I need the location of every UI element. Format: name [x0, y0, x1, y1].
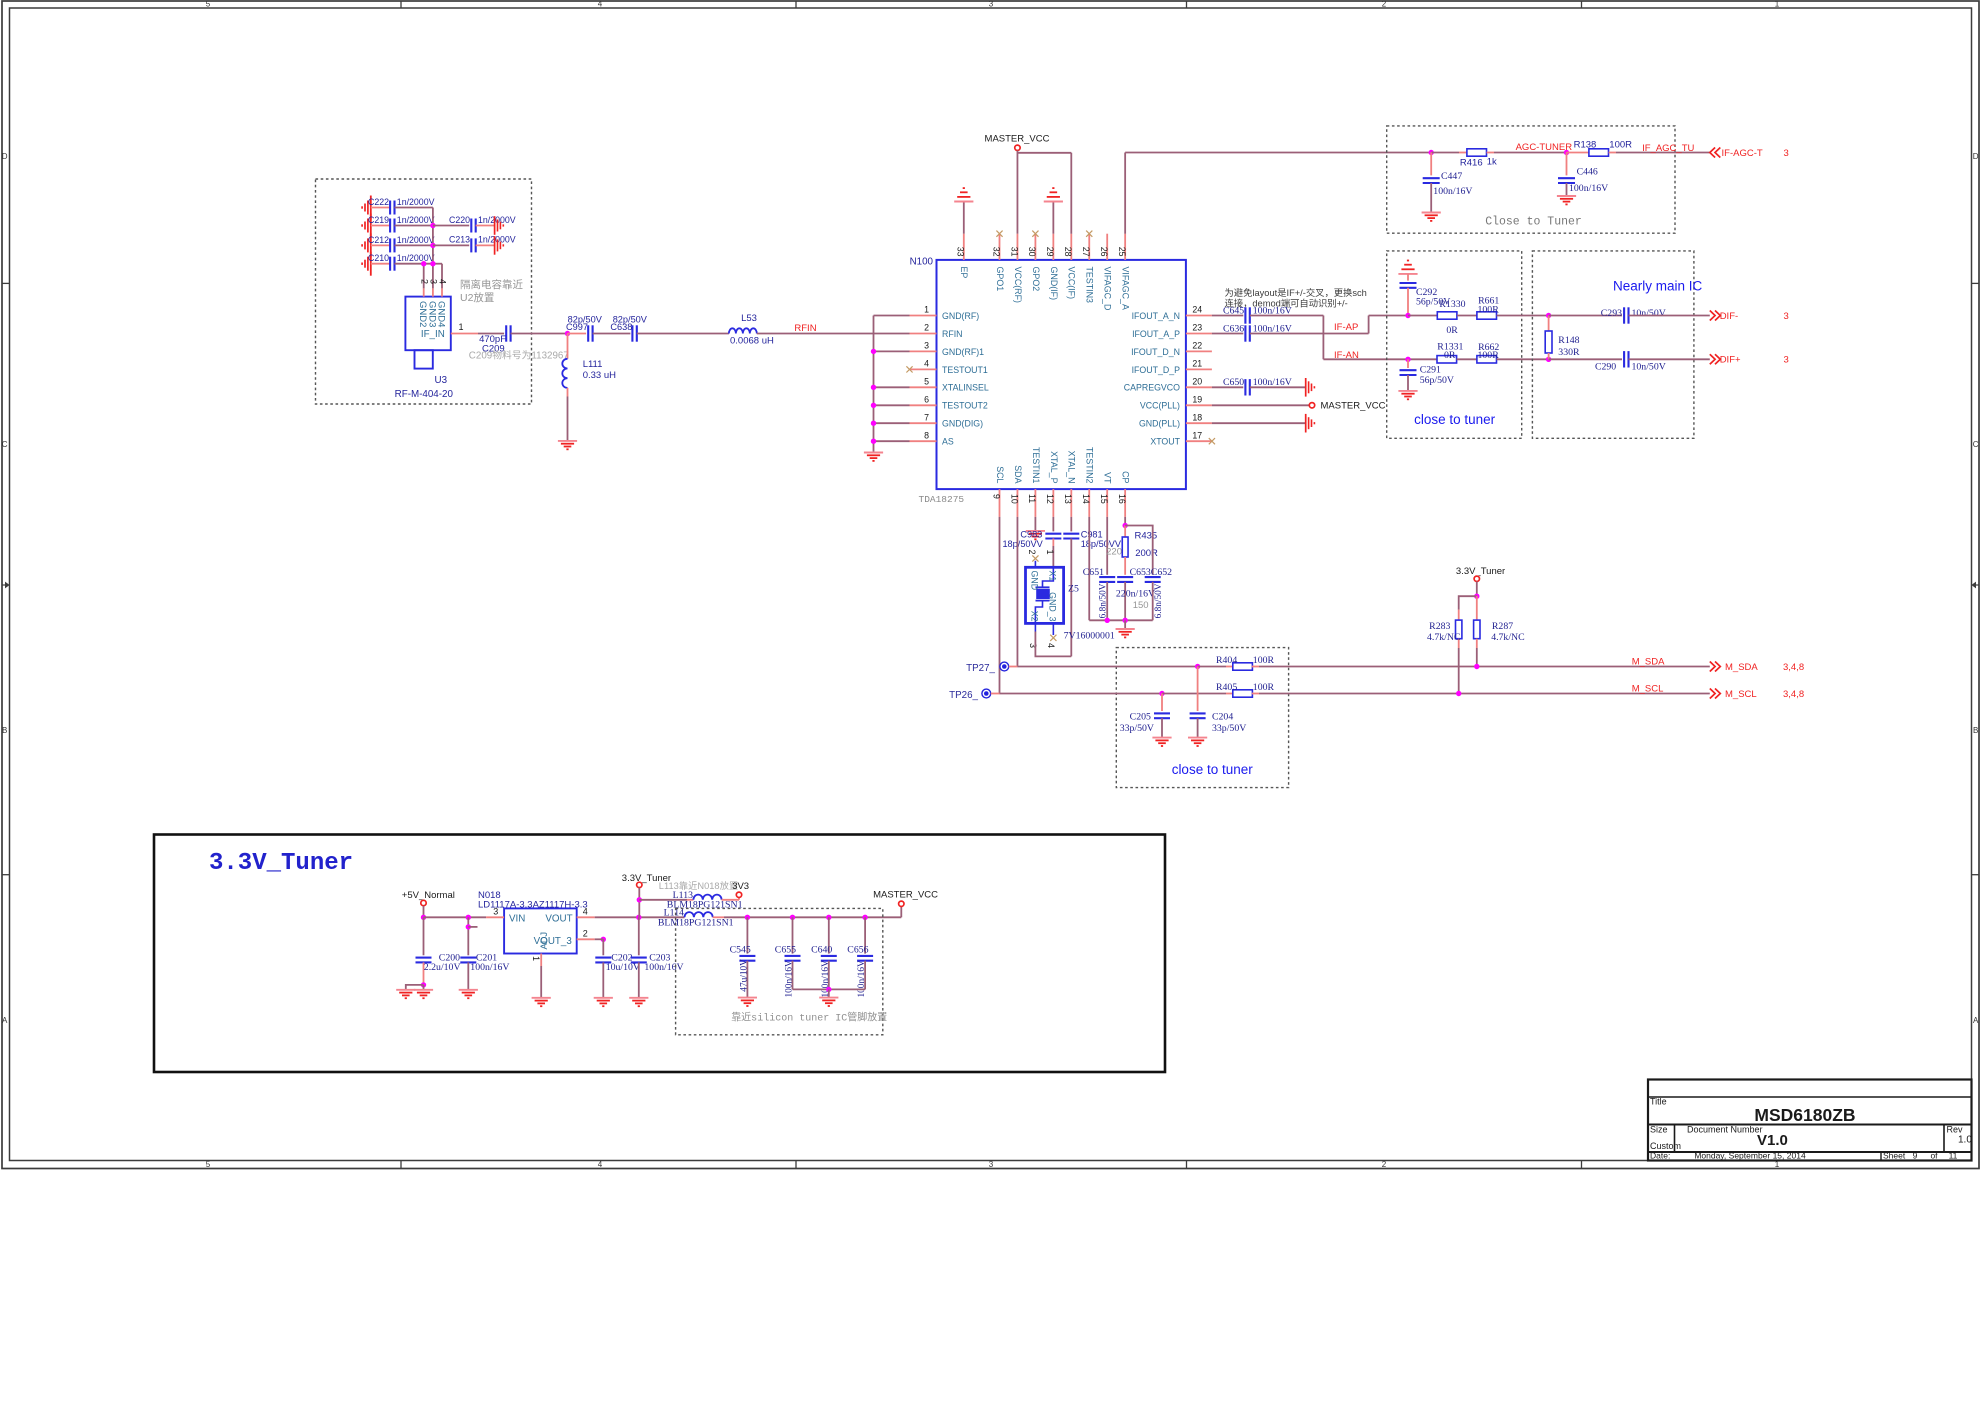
svg-text:GPO2: GPO2 [1031, 267, 1041, 292]
pin 31 VCC(RF) [1016, 234, 1018, 260]
dashed box Close to Tuner [1387, 126, 1675, 233]
wire caps ground rail [793, 988, 866, 990]
capacitor C201 100n/16V [460, 957, 476, 959]
ground TESTIN1 [1034, 517, 1036, 531]
pin 4 TESTOUT1 [910, 368, 937, 370]
svg-text:D: D [2, 152, 8, 161]
junction L113 node [637, 897, 642, 902]
wire R287 to M_SDA [1476, 648, 1478, 667]
ground ADJ [532, 997, 551, 999]
svg-text:C293: C293 [1601, 308, 1622, 319]
capacitor C203 100n/16V [638, 917, 640, 955]
capacitor C446 100n/16V [1566, 153, 1568, 176]
svg-text:C447: C447 [1441, 171, 1462, 182]
svg-text:Nearly main IC: Nearly main IC [1613, 278, 1703, 293]
svg-text:C: C [2, 440, 8, 449]
wire SDA down [1016, 517, 1018, 667]
pin 25 VIFAGC_A [1124, 234, 1126, 260]
svg-text:GND4: GND4 [436, 301, 447, 327]
wire bus of isolation caps [432, 208, 434, 264]
capacitor C222 [371, 207, 390, 209]
svg-text:100n/16V: 100n/16V [857, 960, 867, 997]
svg-text:5: 5 [206, 1160, 211, 1169]
svg-text:220n/16V: 220n/16V [1116, 588, 1155, 599]
svg-text:11: 11 [1027, 494, 1037, 503]
svg-text:C651: C651 [1083, 567, 1104, 578]
pin 8 AS [910, 440, 937, 442]
wire R283 to M_SCL [1458, 648, 1460, 694]
svg-text:24: 24 [1192, 305, 1202, 315]
wire R1330 R661 [1457, 315, 1477, 317]
ground EP pin33 [963, 202, 965, 234]
pin 14 TESTIN2 [1088, 489, 1090, 517]
ground left bus [864, 452, 883, 454]
svg-text:C640: C640 [811, 944, 832, 955]
svg-text:1: 1 [459, 322, 464, 332]
wire IFOUT_A_N jog down IF-AN [1250, 315, 1324, 317]
svg-text:SCL: SCL [995, 466, 1005, 483]
svg-text:IF_IN: IF_IN [421, 329, 445, 340]
pin 23 IFOUT_A_P [1186, 333, 1212, 335]
svg-text:18: 18 [1192, 412, 1202, 422]
svg-text:C638: C638 [610, 322, 632, 332]
svg-text:B: B [2, 726, 7, 735]
pin 16 CP [1124, 489, 1126, 517]
pin 7 GND(DIG) [910, 422, 937, 424]
svg-text:VT: VT [1103, 472, 1113, 484]
capacitor C653 220n/16V [1117, 576, 1133, 578]
ground C200 right [414, 989, 433, 991]
pin 32 GPO1 [999, 234, 1001, 260]
wire RFIN to IC pin2 [757, 333, 910, 335]
inductor L53 0.0068 uH [729, 328, 757, 333]
svg-text:U2放置: U2放置 [460, 291, 494, 304]
junction bus pin7 [871, 421, 876, 426]
svg-text:C650: C650 [1223, 377, 1244, 388]
svg-text:3: 3 [989, 1160, 994, 1169]
inductor L111 0.33 uH [567, 334, 569, 359]
svg-text:C209物料号为1132967: C209物料号为1132967 [469, 349, 569, 362]
svg-text:IF-AP: IF-AP [1334, 322, 1358, 333]
pin 15 VT [1106, 489, 1108, 517]
offpage M_SCL [1710, 689, 1715, 699]
svg-text:靠近silicon tuner IC管脚放置: 靠近silicon tuner IC管脚放置 [731, 1011, 887, 1025]
wire L111 to ground [567, 397, 569, 441]
junction bus pin5 [871, 385, 876, 390]
svg-text:R405: R405 [1216, 682, 1237, 693]
svg-text:C545: C545 [730, 944, 751, 955]
svg-text:Rev: Rev [1947, 1125, 1964, 1135]
svg-text:X1: X1 [1047, 571, 1057, 582]
svg-text:2: 2 [1382, 1160, 1387, 1169]
svg-text:C655: C655 [775, 944, 796, 955]
svg-text:R287: R287 [1492, 621, 1513, 632]
svg-text:1k: 1k [1487, 156, 1497, 167]
svg-text:14: 14 [1081, 494, 1091, 504]
svg-text:of: of [1930, 1151, 1938, 1161]
offpage IF-AGC-T [1710, 148, 1715, 158]
svg-text:M_SCL: M_SCL [1632, 683, 1664, 694]
svg-text:4: 4 [924, 359, 929, 369]
regulator N018 LD1117A-3.3AZ1117H-3.3 [504, 908, 577, 953]
dashed box near silicon tuner [676, 908, 883, 1034]
svg-text:5: 5 [206, 0, 211, 9]
wire R416 to R138 node [1494, 152, 1567, 154]
svg-text:VIFAGC_D: VIFAGC_D [1103, 267, 1113, 311]
svg-text:Sheet: Sheet [1883, 1151, 1906, 1161]
svg-text:29: 29 [1045, 247, 1055, 257]
svg-text:10n/50V: 10n/50V [1632, 361, 1666, 372]
resistor R416 1k [1431, 152, 1459, 154]
svg-text:MASTER_VCC: MASTER_VCC [985, 134, 1050, 145]
svg-text:C636: C636 [1223, 323, 1244, 334]
svg-text:RFIN: RFIN [942, 329, 963, 339]
svg-text:GPO1: GPO1 [995, 267, 1005, 292]
capacitor C202 10u/10V [602, 939, 604, 955]
ground C203 [629, 997, 648, 999]
svg-text:31: 31 [1009, 247, 1019, 257]
svg-text:3,4,8: 3,4,8 [1783, 662, 1804, 673]
pin 3 GND(RF)1 [910, 350, 937, 352]
capacitor C291 56p/50V [1407, 359, 1409, 368]
svg-text:100n/16V: 100n/16V [785, 960, 795, 997]
svg-text:M_SDA: M_SDA [1632, 656, 1665, 667]
pin 2 RFIN [910, 333, 937, 335]
wire C201 drop [467, 917, 469, 955]
svg-text:R283: R283 [1429, 621, 1450, 632]
svg-text:IF-AGC-T: IF-AGC-T [1722, 148, 1763, 159]
dashed box Nearly main IC [1532, 251, 1694, 438]
junction pullup top [1474, 594, 1479, 599]
no-connect pin4 [906, 366, 912, 372]
svg-text:3: 3 [1784, 311, 1789, 322]
svg-text:隔离电容靠近: 隔离电容靠近 [460, 278, 523, 291]
capacitor C655 100n/16V [792, 917, 794, 953]
ground C447 [1422, 212, 1441, 214]
svg-text:MSD6180ZB: MSD6180ZB [1754, 1105, 1855, 1125]
junction U3 pin2 column [421, 261, 426, 266]
pin 2 Z5 no-connect [1034, 561, 1036, 568]
svg-text:30: 30 [1027, 247, 1037, 257]
dashed box close to tuner right [1387, 251, 1522, 438]
svg-text:Z5: Z5 [1068, 584, 1079, 595]
ground C220 right [494, 216, 496, 235]
pin 17 XTOUT [1186, 440, 1212, 442]
junction C205 [1159, 691, 1164, 696]
svg-text:TESTIN2: TESTIN2 [1085, 447, 1095, 484]
ground VT CP rail [1124, 620, 1126, 629]
junction bus pin6 [871, 403, 876, 408]
svg-text:330R: 330R [1558, 347, 1580, 358]
ground C291 [1398, 390, 1417, 392]
capacitor C983 18p/50VV [1052, 517, 1054, 532]
junction C447 node [1429, 150, 1434, 155]
pin 20 CAPREGVCO [1186, 386, 1212, 388]
svg-text:RFIN: RFIN [794, 323, 816, 334]
svg-text:2: 2 [583, 928, 588, 938]
testpoint TP26 [982, 689, 991, 698]
junction CP R435 top [1124, 517, 1126, 526]
capacitor C638 82p/50V [631, 325, 633, 341]
svg-text:0R: 0R [1446, 325, 1458, 336]
wire left pins bus [873, 316, 875, 453]
capacitor C213 [433, 244, 469, 246]
svg-text:4: 4 [583, 906, 588, 916]
pin 24 IFOUT_A_N [1186, 315, 1212, 317]
svg-text:0R: 0R [1444, 350, 1456, 361]
svg-text:VIN: VIN [509, 914, 525, 925]
resistor R405 100R [1162, 693, 1226, 695]
svg-text:IF_AGC_TU: IF_AGC_TU [1642, 143, 1694, 154]
svg-text:6.8n/50V: 6.8n/50V [1099, 583, 1109, 618]
pin 10 SDA [1016, 489, 1018, 517]
svg-text:33: 33 [956, 247, 966, 257]
junction C212 bus [430, 243, 435, 248]
ground C222 left [370, 196, 372, 220]
svg-text:22: 22 [1192, 341, 1202, 351]
junction R283 M_SCL [1456, 691, 1461, 696]
svg-text:C212: C212 [368, 235, 389, 245]
pin 11 TESTIN1 [1034, 489, 1036, 517]
svg-text:9: 9 [991, 494, 1001, 499]
capacitor C640 100n/16V [828, 917, 830, 953]
svg-text:2: 2 [1382, 0, 1387, 9]
svg-text:4.7k/NC: 4.7k/NC [1427, 632, 1460, 643]
svg-text:XTAL_P: XTAL_P [1049, 451, 1059, 483]
svg-text:GND_3: GND_3 [1047, 592, 1057, 621]
resistor R283 4.7k/NC [1459, 596, 1477, 609]
svg-text:IF-AN: IF-AN [1334, 350, 1359, 361]
svg-text:C997: C997 [566, 322, 588, 332]
svg-text:11: 11 [1949, 1151, 1958, 1161]
svg-text:A: A [2, 1016, 8, 1025]
svg-text:C983: C983 [1020, 530, 1042, 540]
resistor R435 200R [1124, 526, 1126, 538]
svg-text:4.7k/NC: 4.7k/NC [1491, 632, 1524, 643]
svg-text:100n/16V: 100n/16V [470, 962, 509, 973]
junction R287 M_SDA [1474, 664, 1479, 669]
junction R148 top [1546, 313, 1551, 318]
svg-text:R138: R138 [1574, 140, 1597, 151]
junction C640 [826, 915, 831, 920]
svg-text:DIF+: DIF+ [1720, 355, 1741, 366]
connector U3 RF-M-404-20 [405, 297, 450, 351]
svg-text:200R: 200R [1135, 548, 1158, 559]
svg-text:10n/50V: 10n/50V [1632, 308, 1666, 319]
svg-text:5: 5 [924, 377, 929, 387]
svg-text:IFOUT_A_P: IFOUT_A_P [1132, 329, 1180, 339]
svg-text:3,4,8: 3,4,8 [1783, 689, 1804, 700]
ground C446 [1557, 195, 1576, 197]
svg-text:M_SDA: M_SDA [1725, 662, 1758, 673]
svg-text:CP: CP [1121, 471, 1131, 483]
svg-text:0.33 uH: 0.33 uH [583, 370, 616, 381]
junction ground rail C640 [826, 987, 831, 992]
svg-text:R148: R148 [1558, 335, 1579, 346]
svg-text:100n/16V: 100n/16V [1433, 186, 1472, 197]
junction rail C653 [1122, 618, 1127, 623]
capacitor C981 18p/50VV [1070, 517, 1072, 532]
svg-text:2: 2 [924, 323, 929, 333]
ground C200 left [396, 989, 415, 991]
svg-text:1: 1 [1045, 549, 1055, 554]
svg-text:23: 23 [1192, 323, 1202, 333]
svg-text:C290: C290 [1595, 361, 1616, 372]
svg-text:100R: 100R [1253, 682, 1275, 693]
junction C655 [790, 915, 795, 920]
wire XTAL_P to crystal [1052, 546, 1054, 567]
svg-text:N100: N100 [910, 257, 934, 268]
resistor R661 100R [1477, 312, 1497, 319]
wire U3 to C209 [478, 333, 504, 335]
svg-text:1: 1 [924, 305, 929, 315]
ground GND(IF) pin29 [1052, 202, 1054, 234]
wire VT CP ground rail [1089, 619, 1152, 621]
wire IFOUT_A_P jog up IF-AP [1250, 333, 1369, 335]
wire M_SDA row left [1017, 666, 1197, 668]
svg-text:7: 7 [924, 412, 929, 422]
svg-text:U3: U3 [435, 375, 448, 386]
svg-text:2.2u/10V: 2.2u/10V [424, 962, 461, 973]
wire M_SDA row right [1259, 666, 1710, 668]
svg-text:32: 32 [991, 247, 1001, 257]
offpage DIF- [1710, 311, 1715, 321]
svg-text:为避免layout是IF+/-交叉，更换sch: 为避免layout是IF+/-交叉，更换sch [1225, 287, 1367, 298]
wire IF-AN into box [1408, 358, 1437, 360]
pin 1 N018 ADJ ground [540, 954, 542, 967]
capacitor C292 56p/50V [1407, 274, 1409, 281]
no-connect pin30 [1032, 231, 1038, 237]
ground C219 left [370, 214, 372, 238]
wire GND(PLL) to ground [1212, 422, 1306, 424]
svg-text:4: 4 [598, 0, 603, 9]
svg-text:100n/16V: 100n/16V [644, 962, 683, 973]
capacitor C212 [371, 244, 390, 246]
isolation caps dashed box [316, 179, 532, 404]
pin 21 IFOUT_D_P [1186, 368, 1212, 370]
junction bus pin8 [871, 439, 876, 444]
svg-text:2: 2 [1027, 549, 1037, 554]
dashed box close to tuner bottom [1116, 648, 1288, 788]
svg-text:3: 3 [493, 906, 498, 916]
svg-text:RF-M-404-20: RF-M-404-20 [395, 389, 454, 400]
svg-text:3.3V_Tuner: 3.3V_Tuner [1456, 566, 1505, 577]
pin 29 GND(IF) [1052, 234, 1054, 260]
pin 5 XTALINSEL [910, 386, 937, 388]
svg-text:1.0: 1.0 [1958, 1135, 1972, 1146]
wire C650 to ground [1250, 386, 1306, 388]
svg-text:TESTOUT2: TESTOUT2 [942, 401, 988, 411]
wire M_SCL row left [1000, 693, 1163, 695]
pin 3 N018 [486, 916, 504, 918]
ground C213 right [494, 236, 496, 255]
svg-text:100R: 100R [1478, 350, 1500, 361]
wire MASTER_VCC to pins 31 28 [1016, 151, 1018, 234]
ground C292 top [1398, 273, 1417, 275]
ground C545 [738, 997, 757, 999]
svg-text:33p/50V: 33p/50V [1120, 723, 1154, 734]
svg-text:4: 4 [438, 279, 448, 284]
resistor R148 330R [1548, 316, 1550, 332]
svg-text:TP27_: TP27_ [966, 663, 995, 674]
svg-text:C220: C220 [449, 215, 470, 225]
wire R1331 R662 [1457, 358, 1477, 360]
svg-text:TP26_: TP26_ [949, 690, 978, 701]
no-connect pin27 [1086, 231, 1092, 237]
offpage DIF+ [1710, 354, 1715, 364]
capacitor C205 33p/50V [1161, 694, 1163, 712]
pin 33 EP [963, 234, 965, 260]
svg-text:10u/10V: 10u/10V [606, 962, 640, 973]
svg-text:L53: L53 [741, 313, 757, 324]
pin 12 XTAL_P [1052, 489, 1054, 517]
svg-text:28: 28 [1063, 247, 1073, 257]
svg-text:Custom: Custom [1650, 1141, 1681, 1151]
svg-text:IFOUT_D_P: IFOUT_D_P [1132, 365, 1181, 375]
junction C202 node [601, 937, 606, 942]
capacitor C447 100n/16V [1430, 153, 1432, 176]
pin 30 GPO2 [1034, 234, 1036, 260]
svg-text:100R: 100R [1609, 140, 1632, 151]
wire C290 to DIF+ connector [1629, 358, 1710, 360]
resistor R287 4.7k/NC [1476, 596, 1478, 620]
svg-text:C210: C210 [368, 253, 389, 263]
capacitor C652 6.8n/50V [1125, 526, 1153, 575]
pin 1 U3 [451, 333, 478, 335]
wire C209 to node RFIN1 [511, 333, 568, 335]
svg-text:Date:: Date: [1650, 1151, 1670, 1161]
svg-text:GND(RF): GND(RF) [942, 311, 979, 321]
svg-text:C652: C652 [1151, 567, 1172, 578]
wire C638 to L53 [637, 333, 729, 335]
svg-text:47u/10V: 47u/10V [739, 959, 749, 992]
svg-text:3: 3 [1784, 148, 1789, 159]
svg-text:1: 1 [531, 956, 541, 961]
svg-text:TDA18275: TDA18275 [919, 494, 965, 505]
svg-text:AS: AS [942, 437, 954, 447]
capacitor C636 100n/16V [1212, 333, 1243, 335]
svg-text:EP: EP [959, 267, 969, 279]
junction C446 node [1564, 150, 1569, 155]
ground C212 left [370, 233, 372, 257]
ground caps rail [828, 989, 830, 997]
pin 26 VIFAGC_D [1106, 234, 1108, 260]
junction rail C651 [1105, 618, 1110, 623]
capacitor C645 100n/16V [1212, 315, 1243, 317]
svg-text:C981: C981 [1081, 530, 1103, 540]
wire C210 row to U3 pins [433, 263, 442, 265]
svg-text:+5V_Normal: +5V_Normal [402, 890, 455, 901]
svg-text:VCC(RF): VCC(RF) [1013, 267, 1023, 304]
svg-text:1n/2000V: 1n/2000V [397, 197, 435, 207]
svg-text:R416: R416 [1460, 157, 1483, 168]
svg-text:150: 150 [1133, 600, 1149, 611]
wire R662 to R148 node [1497, 358, 1549, 360]
svg-text:15: 15 [1099, 494, 1109, 504]
wire R138 to IF-AGC-T connector [1616, 152, 1710, 154]
svg-text:3: 3 [1784, 355, 1789, 366]
capacitor C200 2.2u/10V [423, 917, 425, 955]
capacitor C656 100n/16V [864, 917, 866, 953]
svg-text:V1.0: V1.0 [1757, 1132, 1788, 1149]
no-connect pin32 [996, 231, 1002, 237]
svg-text:12: 12 [1045, 494, 1055, 504]
svg-text:20: 20 [1192, 377, 1202, 387]
svg-text:1n/2000V: 1n/2000V [397, 253, 435, 263]
svg-text:XTALINSEL: XTALINSEL [942, 383, 989, 393]
svg-text:C219: C219 [368, 215, 389, 225]
wire M_SCL row right [1259, 693, 1710, 695]
